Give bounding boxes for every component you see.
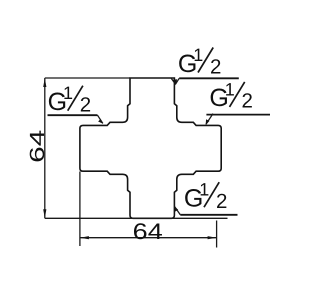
- bottom dim extension left: [79, 172, 81, 247]
- svg-text:1: 1: [225, 79, 235, 99]
- svg-text:2: 2: [216, 190, 227, 213]
- label G1/2 left: [48, 83, 92, 116]
- label G1/2 bottom: [184, 180, 228, 213]
- leader right G1/2: [206, 114, 270, 116]
- horizontal dimension line 64: [80, 237, 217, 239]
- svg-text:1: 1: [199, 180, 209, 200]
- top extension line (left of top face, level y=78): [45, 77, 130, 79]
- svg-text:64: 64: [133, 219, 163, 244]
- arrow down: [43, 209, 46, 218]
- arrow left: [80, 236, 89, 239]
- svg-text:64: 64: [26, 130, 49, 163]
- bottom dim extension right: [216, 221, 218, 248]
- label G1/2 right: [209, 79, 253, 112]
- bottom extension line (level y=218.3): [45, 217, 228, 219]
- svg-text:1: 1: [193, 45, 203, 65]
- cross fitting body outline: [80, 78, 221, 218]
- svg-text:1: 1: [63, 83, 73, 103]
- svg-text:2: 2: [242, 90, 253, 113]
- leader left G1/2: [48, 114, 98, 116]
- leader bottom G1/2: [180, 214, 237, 216]
- vertical dimension line 64: [44, 78, 46, 218]
- svg-text:2: 2: [80, 94, 91, 117]
- arrow up: [43, 78, 46, 87]
- leader top G1/2: [179, 77, 239, 79]
- label G1/2 top: [178, 45, 222, 78]
- svg-text:2: 2: [210, 55, 221, 78]
- arrow right: [208, 236, 217, 239]
